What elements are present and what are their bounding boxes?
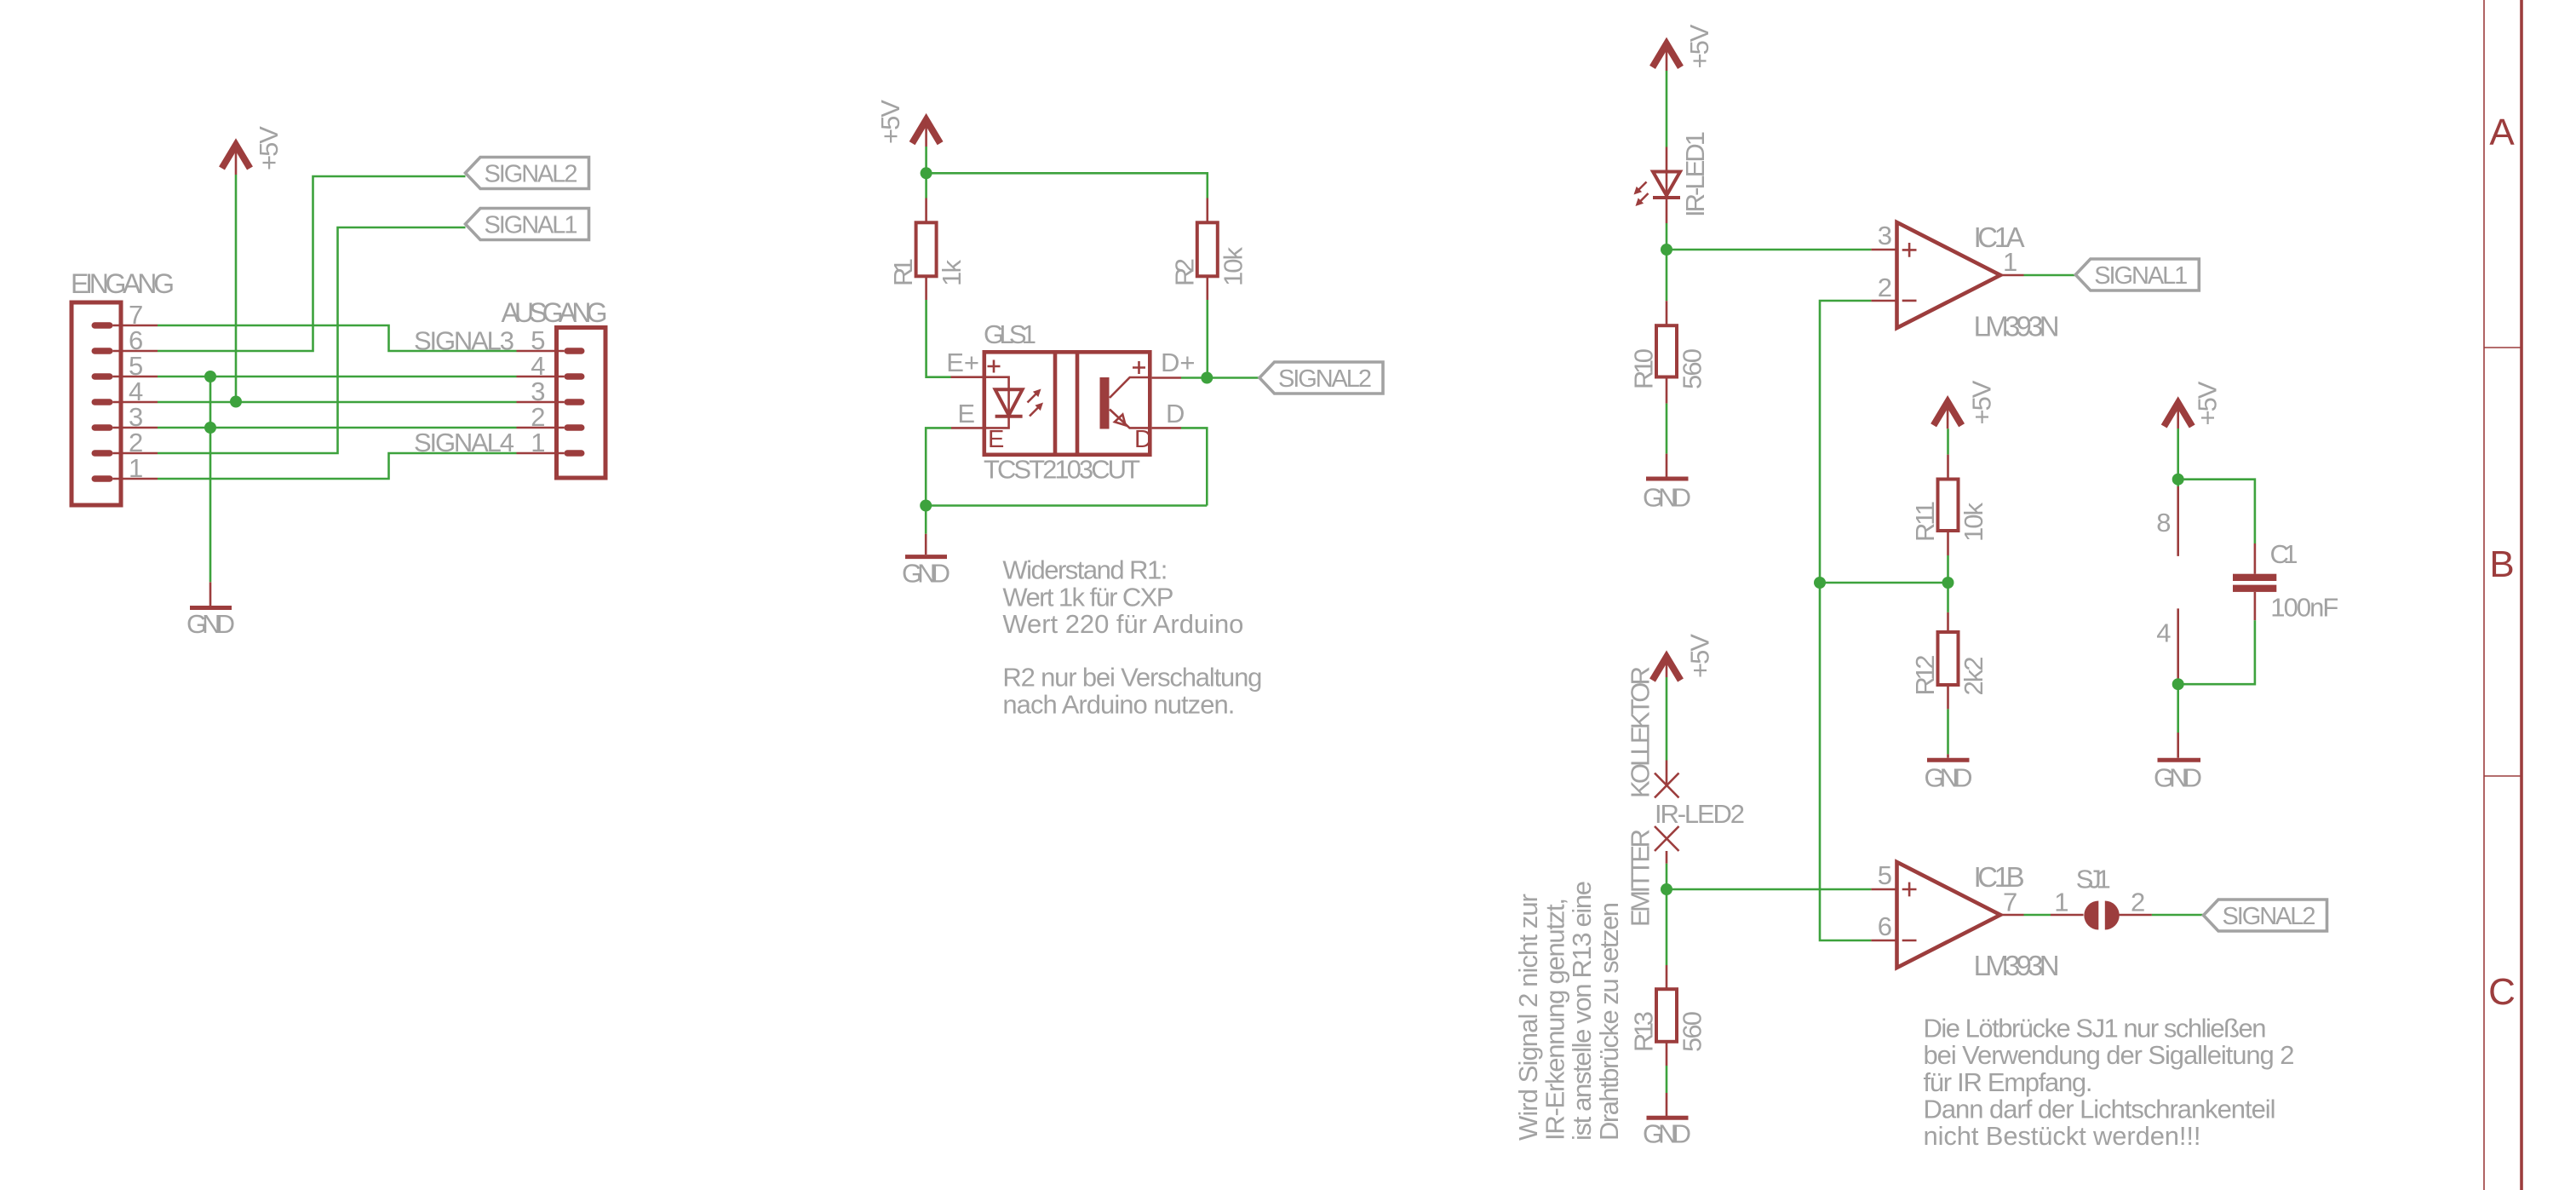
junction dot +5V rail (middle) xyxy=(921,167,932,179)
op-amp IC1B plus input mark xyxy=(1902,882,1917,897)
svg-text:E+: E+ xyxy=(946,348,979,377)
resistor R12 body xyxy=(1938,632,1959,685)
wire GLS1 E pin down to GND rail xyxy=(926,428,951,505)
svg-text:560: 560 xyxy=(1678,348,1707,389)
svg-text:nicht Bestückt werden!!!: nicht Bestückt werden!!! xyxy=(1924,1121,2201,1151)
junction dot GND rail (middle) xyxy=(920,500,932,512)
op-amp IC1A triangle xyxy=(1897,222,2001,328)
svg-text:SIGNAL2: SIGNAL2 xyxy=(485,161,578,188)
junction dot node R11/R12 xyxy=(1942,577,1954,589)
junction dot IC pin8 node xyxy=(2172,474,2184,486)
diode IR-LED1 pins xyxy=(1666,147,1668,224)
op-amp IC1B minus input mark xyxy=(1902,940,1917,942)
wire net +5V vertical (left) xyxy=(235,175,238,402)
svg-text:4: 4 xyxy=(2156,618,2171,648)
diode IR-LED1 triangle xyxy=(1653,172,1680,196)
svg-text:6: 6 xyxy=(1878,911,1892,941)
pin lead SJ1 pin2 xyxy=(2118,914,2152,917)
svg-text:2k2: 2k2 xyxy=(1959,657,1988,696)
wire node to C1 top xyxy=(2178,480,2255,543)
pin lead E+ xyxy=(951,376,983,378)
svg-text:R1: R1 xyxy=(888,258,918,286)
wire +5V rail to R2 xyxy=(927,173,1208,198)
junction dot IR-LED1 node xyxy=(1661,244,1672,256)
ground GND symbol (R12) xyxy=(1925,754,1973,792)
svg-text:SIGNAL2: SIGNAL2 xyxy=(1278,365,1372,393)
wire +5V to IR-LED1 xyxy=(1666,71,1668,147)
svg-text:+5V: +5V xyxy=(1967,380,1997,424)
wire node rail xyxy=(1820,582,1948,584)
resistor R2 pins xyxy=(1207,198,1209,301)
connector EINGANG pin numbers 7..1 xyxy=(129,300,143,483)
resistor R11 pins xyxy=(1947,455,1949,555)
svg-text:EMITTER: EMITTER xyxy=(1626,829,1655,927)
unconnected pin cross EMITTER xyxy=(1655,826,1679,851)
net label SIGNAL1 flag (right) xyxy=(2075,259,2199,290)
wire EINGANG pin6 to SIGNAL2 flag xyxy=(158,176,466,351)
op-amp IC1A plus input mark xyxy=(1902,243,1917,257)
svg-text:560: 560 xyxy=(1678,1011,1707,1052)
connector EINGANG pin leads xyxy=(113,325,158,479)
pin lead IC1 power pin 4 xyxy=(2177,608,2179,684)
svg-text:LM393N: LM393N xyxy=(1974,311,2060,342)
svg-text:D: D xyxy=(1134,426,1152,453)
svg-text:bei Verwendung der Sigalleitun: bei Verwendung der Sigalleitung 2 xyxy=(1924,1040,2295,1070)
GLS1 phototransistor emitter lead with arrow xyxy=(1110,410,1150,428)
svg-text:GND: GND xyxy=(902,559,950,589)
svg-text:R11: R11 xyxy=(1910,501,1940,542)
wire node to IC1A pin3 xyxy=(1667,249,1871,251)
wire EINGANG pin4 to AUSGANG pin3 xyxy=(158,401,517,404)
pin lead IC1A output pin1 xyxy=(2000,274,2024,277)
svg-text:SIGNAL4: SIGNAL4 xyxy=(414,428,514,457)
junction dot node left xyxy=(1814,577,1826,589)
svg-text:KOLLEKTOR: KOLLEKTOR xyxy=(1626,666,1655,798)
wire IR-LED1 to node xyxy=(1666,223,1668,301)
pin lead IC1A pin2 xyxy=(1871,300,1895,302)
svg-text:GND: GND xyxy=(2154,763,2202,793)
resistor R10 pins xyxy=(1666,301,1668,403)
svg-text:1: 1 xyxy=(531,428,545,457)
wire D pin down xyxy=(1181,428,1207,505)
wire R13 to GND xyxy=(1666,1066,1668,1093)
power symbol +5V (C1) xyxy=(2164,381,2222,428)
svg-text:+5V: +5V xyxy=(2193,381,2223,425)
wire node to GND (C1) xyxy=(2177,684,2179,733)
svg-text:GND: GND xyxy=(1643,1119,1691,1149)
svg-text:GND: GND xyxy=(186,609,235,639)
wire node to IC1B pin5 xyxy=(1667,888,1871,891)
wire +5V stem to rail xyxy=(925,147,927,198)
junction dot pin3 row xyxy=(204,422,216,434)
resistor R12 pins xyxy=(1947,612,1949,710)
connector EINGANG body xyxy=(72,302,121,505)
junction dot IC pin4 node xyxy=(2172,678,2184,690)
wire net GND vertical (left) xyxy=(209,377,212,582)
wire EMITTER to node xyxy=(1666,864,1668,965)
connector AUSGANG pin numbers 5..1 xyxy=(531,325,545,457)
svg-text:D+: D+ xyxy=(1161,348,1196,377)
GLS1 phototransistor base bar xyxy=(1100,377,1110,429)
svg-text:1: 1 xyxy=(2003,247,2017,277)
frame border inner line with section ticks xyxy=(2484,0,2521,1190)
resistor R1 body xyxy=(916,222,937,276)
svg-text:A: A xyxy=(2489,112,2515,153)
svg-text:LM393N: LM393N xyxy=(1974,950,2060,981)
svg-text:AUSGANG: AUSGANG xyxy=(502,297,608,328)
svg-text:D: D xyxy=(1166,399,1185,428)
svg-text:SJ1: SJ1 xyxy=(2076,865,2111,894)
svg-text:SIGNAL1: SIGNAL1 xyxy=(2094,262,2188,290)
capacitor C1 pins xyxy=(2254,543,2257,620)
ground GND symbol (C1) xyxy=(2154,733,2202,793)
pin lead EMITTER xyxy=(1666,851,1668,864)
svg-text:SIGNAL3: SIGNAL3 xyxy=(414,326,514,356)
wire SJ1 to SIGNAL2 flag xyxy=(2152,914,2204,917)
optocoupler GLS1 body xyxy=(984,352,1150,455)
wire R11 to node xyxy=(1947,555,1949,612)
svg-text:1: 1 xyxy=(2054,888,2068,917)
capacitor C1 plates xyxy=(2233,574,2276,592)
note text Die Lötbrücke SJ1 xyxy=(1924,1013,2295,1151)
wire +5V to KOLLEKTOR pin xyxy=(1666,677,1668,761)
wire EINGANG pin3 to AUSGANG pin2 xyxy=(158,427,517,429)
resistor R1 pins xyxy=(925,198,927,301)
diode IR-LED1 emission arrows xyxy=(1634,182,1649,207)
GLS1 internal LED cathode bar xyxy=(995,415,1023,418)
wire +5V to R11 xyxy=(1947,428,1949,454)
wire IC1A output to SIGNAL1 xyxy=(2024,274,2076,277)
wire IC1B output to SJ1 xyxy=(2024,914,2051,917)
wire R12 to GND xyxy=(1947,709,1949,754)
junction dot pin4 row (+5V) xyxy=(230,396,242,408)
svg-text:R2: R2 xyxy=(1169,258,1199,286)
power symbol +5V (KOLLEKTOR) xyxy=(1653,634,1715,681)
power symbol +5V (left block) xyxy=(222,126,284,175)
note text Wird Signal 2 (rotated) xyxy=(1513,881,1624,1141)
svg-text:ist anstelle von R13 eine: ist anstelle von R13 eine xyxy=(1567,881,1597,1141)
net label SIGNAL2 flag (right) xyxy=(2204,900,2327,931)
pin lead IC1A pin3 xyxy=(1871,249,1895,251)
svg-text:1k: 1k xyxy=(937,260,967,287)
op-amp IC1B triangle xyxy=(1897,862,2001,968)
resistor R13 pins xyxy=(1666,965,1668,1066)
svg-text:Dann darf der Lichtschrankente: Dann darf der Lichtschrankenteil xyxy=(1924,1095,2276,1124)
note text Widerstand R1 xyxy=(1002,555,1262,720)
net label SIGNAL2 flag (top left) xyxy=(466,158,589,189)
svg-text:IR-LED2: IR-LED2 xyxy=(1655,799,1745,829)
svg-text:Die Lötbrücke SJ1 nur schließe: Die Lötbrücke SJ1 nur schließen xyxy=(1924,1013,2267,1043)
svg-text:+5V: +5V xyxy=(1685,634,1715,678)
svg-text:EINGANG: EINGANG xyxy=(71,268,175,299)
pin lead KOLLEKTOR xyxy=(1666,761,1668,786)
svg-text:+5V: +5V xyxy=(1684,24,1714,68)
svg-text:Wird Signal 2 nicht zur: Wird Signal 2 nicht zur xyxy=(1513,894,1543,1141)
svg-text:Wert 220 für Arduino: Wert 220 für Arduino xyxy=(1002,609,1243,639)
wire bottom rail (D to GND) xyxy=(926,504,1207,507)
svg-text:SIGNAL1: SIGNAL1 xyxy=(485,212,578,239)
junction dot EMITTER node xyxy=(1661,883,1672,895)
wire EINGANG pin1 to AUSGANG pin1 xyxy=(158,453,517,479)
ground GND symbol (R13) xyxy=(1643,1093,1691,1149)
svg-text:Drahtbrücke zu setzen: Drahtbrücke zu setzen xyxy=(1594,902,1624,1141)
frame border outer line xyxy=(2520,0,2523,1190)
connector AUSGANG pin leads xyxy=(517,351,565,453)
ground GND symbol (middle) xyxy=(902,534,950,589)
wire R2 to SIGNAL2 node xyxy=(1207,300,1209,378)
svg-text:Wert 1k für CXP: Wert 1k für CXP xyxy=(1002,582,1173,612)
pin lead IC1 power pin 8 xyxy=(2177,486,2179,556)
svg-text:8: 8 xyxy=(2156,508,2171,538)
svg-text:R2 nur bei Verschaltung: R2 nur bei Verschaltung xyxy=(1002,662,1262,692)
pin lead IC1B pin5 xyxy=(1871,888,1895,891)
svg-text:5: 5 xyxy=(1878,860,1892,890)
GLS1 plus mark (detector side) xyxy=(1133,361,1145,374)
wire R10 to GND xyxy=(1666,404,1668,454)
GLS1 internal LED triangle xyxy=(995,389,1023,415)
solder jumper SJ1 pads xyxy=(2084,901,2119,930)
wire IC1A pin2 feedback net down to IC1B pin6 xyxy=(1820,301,1871,940)
unconnected pin cross KOLLEKTOR xyxy=(1655,773,1679,798)
svg-text:GND: GND xyxy=(1925,763,1973,793)
junction dot pin5 row xyxy=(204,371,216,382)
power symbol +5V (middle block) xyxy=(875,100,940,147)
pin lead D+ xyxy=(1152,377,1181,379)
svg-text:SIGNAL2: SIGNAL2 xyxy=(2223,903,2316,930)
svg-text:C: C xyxy=(2488,971,2516,1013)
resistor R10 body xyxy=(1656,325,1677,377)
svg-text:1: 1 xyxy=(129,453,143,483)
wire C1 bottom to GND node xyxy=(2178,620,2255,684)
net label SIGNAL2 flag (middle) xyxy=(1259,362,1383,394)
junction dot D+ node xyxy=(1201,372,1213,384)
GLS1 LED emission arrows xyxy=(1028,389,1044,417)
svg-text:C1: C1 xyxy=(2270,539,2298,569)
svg-text:7: 7 xyxy=(2003,888,2017,917)
svg-text:+5V: +5V xyxy=(875,100,905,144)
svg-text:GLS1: GLS1 xyxy=(984,319,1036,349)
svg-text:+5V: +5V xyxy=(254,126,284,170)
pin lead D xyxy=(1152,427,1181,429)
wire D+ to SIGNAL2 flag xyxy=(1181,377,1259,379)
svg-text:für IR Empfang.: für IR Empfang. xyxy=(1924,1067,2093,1097)
svg-text:TCST2103CUT: TCST2103CUT xyxy=(984,455,1140,485)
ground GND symbol (left block) xyxy=(186,582,235,639)
connector EINGANG pin contacts xyxy=(92,322,113,482)
power symbol +5V (R11) xyxy=(1934,380,1997,428)
svg-text:10k: 10k xyxy=(1959,503,1988,543)
pin lead IC1B output pin7 xyxy=(2000,914,2024,917)
wire +5V to IC power node xyxy=(2177,428,2179,486)
svg-text:2: 2 xyxy=(2131,888,2145,917)
svg-text:R13: R13 xyxy=(1629,1011,1659,1052)
wire EINGANG pin2 to SIGNAL1 flag xyxy=(158,227,466,453)
svg-text:R12: R12 xyxy=(1910,655,1940,696)
op-amp IC1A minus input mark xyxy=(1902,300,1917,302)
resistor R13 body xyxy=(1656,989,1677,1042)
svg-text:3: 3 xyxy=(1878,221,1892,250)
svg-text:100nF: 100nF xyxy=(2270,593,2338,623)
GLS1 plus mark (emitter side) xyxy=(988,360,1001,373)
diode IR-LED1 cathode bar xyxy=(1653,196,1680,199)
svg-text:IR-LED1: IR-LED1 xyxy=(1680,131,1710,217)
ground GND symbol (R10) xyxy=(1643,454,1691,513)
net label SIGNAL1 flag (top left) xyxy=(466,209,589,240)
wire EINGANG pin5 to AUSGANG pin4 xyxy=(158,376,517,378)
pin lead IC1B pin6 xyxy=(1871,940,1895,942)
svg-text:Widerstand R1:: Widerstand R1: xyxy=(1002,555,1168,585)
pin lead SJ1 pin1 xyxy=(2051,914,2084,917)
svg-text:E: E xyxy=(988,426,1004,453)
resistor R11 body xyxy=(1938,480,1959,532)
svg-text:R10: R10 xyxy=(1629,348,1659,389)
svg-text:E: E xyxy=(957,399,975,428)
svg-text:10k: 10k xyxy=(1218,247,1248,287)
svg-text:GND: GND xyxy=(1643,483,1691,513)
svg-text:IR-Erkennung genutzt,: IR-Erkennung genutzt, xyxy=(1540,898,1570,1141)
svg-text:2: 2 xyxy=(1878,273,1892,302)
pin lead E xyxy=(951,427,983,429)
wire R1 to GLS1 E+ xyxy=(927,300,951,377)
svg-text:nach Arduino nutzen.: nach Arduino nutzen. xyxy=(1002,689,1235,719)
svg-text:B: B xyxy=(2489,543,2514,585)
connector AUSGANG pin contacts xyxy=(565,348,585,457)
wire EINGANG pin7 to AUSGANG pin5 xyxy=(158,325,517,351)
GLS1 internal LED anode lead xyxy=(984,377,1009,428)
wire GND stub (middle) xyxy=(925,506,927,534)
connector AUSGANG body xyxy=(557,328,606,479)
GLS1 phototransistor collector lead xyxy=(1110,377,1150,398)
power symbol +5V (IR-LED1) xyxy=(1653,24,1715,71)
resistor R2 body xyxy=(1197,222,1218,276)
